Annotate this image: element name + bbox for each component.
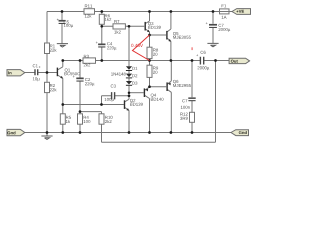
ground under C7 supply — [207, 43, 218, 46]
resistor R5 — [60, 114, 65, 124]
label 1N4148 — [111, 73, 126, 76]
label Q1 — [65, 69, 70, 73]
wire Q4 base — [129, 92, 144, 94]
label R7 1k2 — [114, 20, 119, 23]
wire Q4 collector — [145, 95, 150, 132]
transistor Q3 — [145, 22, 150, 32]
node gnd Q2e — [128, 131, 131, 134]
node Q6 base — [148, 85, 151, 88]
capacitor C6 — [200, 57, 203, 65]
wire bias diode chain — [128, 26, 130, 96]
node zobel top — [191, 59, 194, 62]
diode D1 — [126, 66, 132, 71]
label Q4 — [151, 94, 156, 98]
wire top rail — [47, 11, 232, 13]
label Q3 — [148, 22, 153, 26]
resistor R12 — [190, 112, 195, 122]
red tick mark — [191, 47, 192, 50]
resistor R7 — [113, 24, 125, 29]
resistor R10 — [99, 114, 104, 124]
label D2 — [132, 74, 137, 77]
label R9 20 — [153, 67, 158, 70]
capacitor C7 supply — [209, 24, 217, 28]
node input — [46, 71, 49, 74]
resistor R2 — [45, 82, 50, 92]
wire Q3 collector — [145, 12, 149, 24]
label C2 220u — [85, 78, 90, 81]
label R2 22k — [50, 84, 55, 87]
label F1 1A — [222, 4, 226, 7]
label Q2 — [130, 99, 135, 103]
wire Q1 emitter — [57, 75, 62, 105]
wire ground rail — [25, 132, 232, 134]
resistor R11 — [84, 9, 95, 15]
wire Q3 emitter — [145, 29, 149, 35]
label Q6 — [173, 80, 178, 84]
wire C2 branch — [79, 61, 81, 114]
wire C3 drop — [101, 96, 103, 105]
wire C5 branch — [61, 12, 63, 44]
wire Q1 collector — [57, 61, 62, 71]
wire Q2 collector — [124, 96, 129, 102]
wire R5 branch — [62, 105, 64, 133]
capacitor C1 — [35, 69, 38, 75]
label R6 1k2 — [105, 14, 110, 17]
transistor Q1 — [57, 68, 63, 79]
wire feedback bottom — [102, 61, 216, 143]
wire C7 supply branch — [212, 12, 214, 44]
node C3 drop — [100, 103, 103, 106]
ground under C5 — [57, 44, 68, 47]
red annotation 0.45V — [133, 35, 150, 61]
wire R7 to Q3 base — [102, 25, 144, 27]
resistor R3 — [83, 58, 96, 63]
wire line B feedback node — [80, 112, 102, 114]
node Q3e junction — [148, 34, 151, 37]
label R11 12k — [85, 5, 92, 8]
label R12 — [180, 113, 187, 116]
ground bottom rail — [41, 133, 52, 140]
label C7 zobel 100n — [182, 99, 187, 102]
terminal Gnd left — [7, 129, 25, 135]
terminal In — [7, 70, 25, 76]
node Q3 rail — [148, 10, 151, 13]
capacitor C4 — [98, 44, 105, 48]
terminal +VE — [232, 9, 251, 15]
wire Q6 base — [150, 86, 167, 88]
node gnd R5 — [61, 131, 64, 134]
wire C3 comp — [102, 95, 130, 97]
label C5 100u — [64, 21, 69, 24]
label D3 — [132, 82, 137, 85]
resistor R8 — [147, 47, 152, 58]
node R8 R9 — [148, 59, 151, 62]
label C6 2000u — [201, 51, 206, 54]
wire Q4 emitter — [145, 87, 150, 91]
wire input to Q1 — [25, 72, 57, 74]
label C4 220u — [107, 42, 112, 45]
node bootstrap — [100, 59, 103, 62]
node Q5 Q6 emitters — [170, 59, 173, 62]
node gnd R4 — [79, 131, 82, 134]
label R3 2k2 — [84, 55, 89, 58]
wire Q3e to Q5 base — [150, 34, 167, 36]
node R6 rail — [100, 10, 103, 13]
node gnd Q6c — [170, 131, 173, 134]
label C3 100u — [111, 85, 116, 88]
node Q5 rail — [170, 10, 173, 13]
label Q5 — [173, 32, 178, 36]
node R7 right — [128, 25, 131, 28]
label R4 100 — [84, 116, 89, 119]
node feedback top — [214, 59, 217, 62]
wire Q5 emitter — [167, 38, 171, 61]
transistor Q6 PNP — [166, 82, 170, 91]
node C2 top — [79, 59, 82, 62]
node diode bottom — [128, 91, 131, 94]
label C7 supply 2000u — [219, 24, 224, 27]
label R1 22k — [50, 44, 55, 47]
wire line A Q1e to Q2 base — [63, 104, 124, 106]
capacitor C3 — [112, 92, 115, 99]
node gnd Q4c — [148, 131, 151, 134]
capacitor C5 — [59, 20, 66, 24]
terminal Gnd right — [231, 130, 249, 136]
wire Q6 emitter — [167, 61, 171, 85]
transistor Q5 — [166, 31, 171, 42]
wire output line — [63, 60, 229, 62]
node line B left — [79, 110, 82, 113]
resistor R9 — [147, 65, 152, 77]
wire R9 branch — [149, 61, 151, 87]
diode D3 — [126, 81, 132, 86]
fuse F1 — [220, 9, 230, 14]
resistor R6 — [99, 14, 104, 24]
node Q1 collector — [61, 59, 64, 62]
resistor R4 — [78, 114, 83, 124]
wire R8 branch — [149, 35, 151, 61]
wire Q2 emitter — [124, 107, 129, 132]
node line A left — [61, 103, 64, 106]
label D1 — [132, 67, 137, 70]
wire R10 to feedback line — [101, 124, 103, 142]
capacitor C7 zobel — [188, 97, 195, 101]
node C5 rail — [61, 10, 64, 13]
label R10 2k2 — [105, 116, 112, 119]
label R5 1k — [66, 116, 71, 119]
label R8 20 — [153, 49, 158, 52]
transistor Q4 PNP — [144, 88, 148, 97]
node C7 rail — [212, 10, 215, 13]
transistor Q2 — [124, 100, 129, 111]
diode D2 — [126, 74, 132, 79]
wire left bias vertical — [46, 12, 48, 133]
wire R4 lower — [79, 124, 81, 132]
wire Q6 collector — [167, 89, 171, 132]
node gnd divider — [46, 131, 49, 134]
node dots — [46, 10, 217, 134]
node gnd zobel — [191, 131, 194, 134]
node Q2 collector — [128, 94, 131, 97]
terminal Out — [229, 58, 250, 63]
wire R6 bootstrap vertical — [101, 12, 103, 61]
node R6 bottom — [100, 25, 103, 28]
capacitor C2 — [76, 78, 83, 82]
label C1 10u — [33, 64, 38, 67]
wire Q5 collector — [167, 12, 171, 33]
resistor R1 — [45, 43, 50, 54]
wire zobel branch — [191, 61, 193, 133]
